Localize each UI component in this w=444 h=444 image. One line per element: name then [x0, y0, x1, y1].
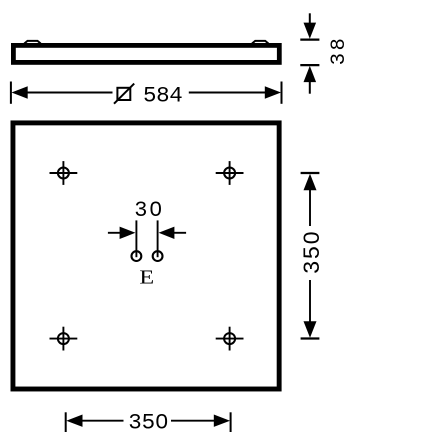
height dimension: upper leader line	[309, 13, 311, 25]
detail right extension line	[157, 220, 159, 257]
mounting hole crosshair top-right	[216, 161, 244, 185]
svg-text:30: 30	[134, 198, 164, 223]
vertical pitch dimension: bottom arrowhead (down)	[304, 321, 317, 338]
vertical pitch dimension: upper line segment	[309, 189, 311, 227]
square-symbol slash	[114, 84, 134, 104]
height dimension: upper arrowhead (down)	[304, 23, 317, 39]
mounting hole crosshair bottom-right	[216, 327, 244, 351]
svg-text:584: 584	[143, 83, 182, 109]
left mounting clip	[24, 41, 40, 44]
svg-text:E: E	[139, 265, 154, 288]
vertical pitch dimension: top tick	[301, 172, 320, 174]
detail right arrow leader	[174, 232, 187, 234]
svg-text:350: 350	[300, 230, 326, 274]
horizontal pitch dimension: left line segment	[81, 420, 124, 422]
width dimension: right extension tick	[281, 82, 283, 104]
panel rear face outline	[13, 123, 279, 389]
detail left arrow leader	[108, 232, 121, 234]
square-symbol box	[117, 88, 130, 100]
wire suspension point right circle	[153, 251, 163, 261]
height dimension: lower tick	[300, 64, 319, 66]
width dimension: right arrowhead	[265, 86, 281, 98]
width dimension: right line segment	[189, 92, 267, 94]
horizontal pitch dimension: left arrowhead (left)	[66, 415, 82, 427]
height dimension: lower leader line	[309, 81, 311, 94]
width dimension: left extension tick	[10, 82, 12, 104]
vertical pitch dimension: lower line segment	[309, 280, 311, 323]
wire suspension point left circle	[132, 251, 142, 261]
height dimension: upper tick	[300, 38, 319, 40]
horizontal pitch dimension: left tick	[65, 412, 67, 432]
right mounting clip	[252, 41, 268, 44]
horizontal pitch dimension: right tick	[230, 412, 232, 432]
luminaire side view body	[13, 45, 279, 62]
width dimension: left arrowhead	[12, 86, 28, 98]
detail left extension line	[135, 220, 137, 257]
vertical pitch dimension: bottom tick	[301, 337, 320, 339]
detail left arrowhead (right)	[120, 227, 136, 239]
horizontal pitch dimension: right arrowhead (right)	[214, 415, 230, 427]
height dimension: lower arrowhead (up)	[304, 66, 317, 82]
vertical pitch dimension: top arrowhead (up)	[304, 174, 317, 191]
width dimension: left line segment	[26, 92, 113, 94]
detail right arrowhead (left)	[159, 227, 175, 239]
svg-text:38: 38	[328, 36, 351, 65]
horizontal pitch dimension: right line segment	[171, 420, 215, 422]
mounting hole crosshair top-left	[50, 161, 78, 185]
mounting hole crosshair bottom-left	[50, 327, 78, 351]
